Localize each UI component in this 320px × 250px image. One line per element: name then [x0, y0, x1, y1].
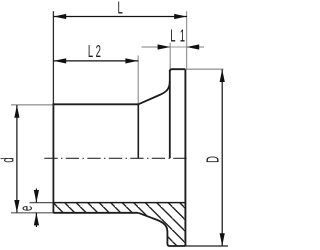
left end face	[52, 104, 54, 213]
extension line D top (y=69.2)	[186, 68, 223, 70]
extension line L1 left (x=170.2)	[169, 43, 171, 69]
flange top edge	[170, 69, 186, 71]
pipe bottom edge (OD)	[53, 212, 138, 214]
svg-text:d: d	[0, 157, 18, 162]
dimension line L2	[53, 60, 138, 62]
dimension line L	[53, 16, 187, 18]
extension line left (x=53.4 above part)	[52, 11, 54, 104]
svg-text:L1: L1	[170, 27, 189, 47]
dimension line d (vertical left)	[16, 105, 18, 213]
extension line d/e bottom (y=212.8)	[11, 212, 53, 214]
flange right face	[184, 69, 186, 246]
extension line right (x=186.6)	[186, 11, 188, 69]
svg-text:e: e	[17, 206, 37, 211]
taper + fillet curve (top)	[138, 82, 170, 105]
bottom taper + flange bottom	[138, 213, 185, 246]
dimension line e (vertical, arrows outside)	[35, 189, 37, 203]
dimension line L1 (arrows outside pointing inward)	[142, 46, 171, 48]
extension line L2 right (x=138.2)	[137, 56, 139, 104]
extension line d top (y=104.8)	[11, 104, 53, 106]
extension line e top (y=202.6)	[30, 202, 54, 204]
dimension line D (vertical right)	[221, 69, 223, 246]
pipe top edge	[53, 103, 139, 105]
flange left face line (to centerline)	[169, 70, 171, 158]
taper start edge (vertical to centerline)	[137, 104, 139, 158]
svg-text:D: D	[203, 156, 223, 163]
bore line (ID, lower half)	[53, 202, 185, 204]
svg-text:L2: L2	[88, 42, 103, 62]
svg-text:L: L	[118, 0, 123, 18]
centerline (dash-dot)	[44, 157, 187, 159]
extension line D bottom / flange bottom continuation to right edge	[185, 245, 228, 247]
hatched cross-section (lower half)	[53, 203, 185, 246]
